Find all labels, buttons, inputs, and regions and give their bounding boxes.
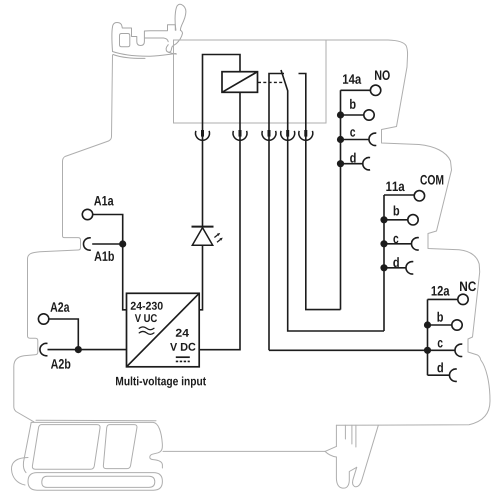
label COM (420, 175, 443, 185)
wire contact row c long (269, 349, 428, 351)
label A2a (50, 302, 69, 312)
foot top and right hook (31, 422, 162, 468)
AC tildes (139, 327, 154, 335)
row 12b (428, 324, 452, 326)
label Multi-voltage input (116, 377, 206, 388)
housing outline: module silhouette left side (14, 55, 113, 422)
label V UC (135, 314, 157, 322)
terminal group 11 COM (384, 191, 425, 331)
latch thumb lever (175, 4, 186, 30)
label c (393, 236, 398, 244)
LED arrows (214, 233, 222, 242)
contact blade (281, 70, 384, 331)
label c (438, 340, 443, 348)
junction A1 (119, 240, 126, 247)
label A2b (51, 359, 71, 369)
label c (350, 129, 355, 137)
row 11c (384, 243, 411, 245)
bus 14 (340, 90, 342, 309)
row 14d (341, 163, 363, 165)
row 12c (428, 349, 455, 351)
dashed actuator link (258, 81, 284, 83)
housing outline: module silhouette top and right side (14, 40, 490, 425)
label d (393, 257, 399, 267)
foot left edge (23, 422, 31, 472)
relay component box (gray) (174, 40, 327, 123)
wire coil A2 bottom to input box (199, 92, 240, 349)
bus 11 (383, 195, 385, 331)
foot bottom bar inner (42, 476, 155, 487)
row 14b (341, 114, 364, 116)
wire contact COM pivot (269, 74, 284, 351)
din rail edge line (163, 446, 336, 457)
LED D1 (192, 135, 223, 310)
bus 12 (427, 299, 429, 375)
label b (394, 206, 400, 216)
label A1a (94, 196, 114, 206)
DC symbol (176, 357, 190, 361)
terminal A2a (38, 314, 78, 350)
label 14a (343, 74, 361, 84)
row 14c (341, 139, 369, 141)
label 24-230 (131, 302, 163, 310)
label NC (460, 281, 476, 291)
label 24 (176, 329, 189, 337)
row 11a (384, 194, 414, 196)
label b (438, 312, 444, 322)
terminal group 14 NO (341, 85, 381, 310)
label d (437, 362, 443, 372)
label b (350, 99, 356, 109)
label 11a (386, 182, 404, 192)
foot panel 1 (32, 425, 100, 470)
latch bottom curves (113, 52, 177, 57)
foot bottom bar outer (28, 473, 162, 491)
housing outline: release latch (112, 4, 186, 58)
terminal A2b (40, 343, 127, 355)
relay coil K1 (222, 72, 258, 93)
row 11d (384, 267, 406, 269)
din rail left end cap (11, 458, 28, 486)
base parting line (36, 419, 156, 422)
label 12a (432, 286, 450, 296)
latch inner hole (120, 34, 130, 47)
housing outline: DIN-rail foot left (11, 420, 162, 490)
plug-in sockets (5 pins) (196, 130, 313, 140)
terminal A1b (83, 238, 122, 250)
row 11b (384, 219, 408, 221)
row 12d (428, 374, 450, 376)
terminal group 12 NC (428, 294, 469, 381)
housing outline: DIN-rail claw right (336, 425, 378, 488)
row 12a (428, 298, 458, 300)
wire coil A1 top (203, 55, 241, 136)
terminal A1a (82, 209, 126, 309)
label d (350, 153, 356, 163)
label NO (375, 70, 390, 80)
junction A2 (75, 346, 82, 353)
contact NO tick and wire (299, 74, 341, 310)
label V DC (170, 343, 195, 351)
label A1b (94, 251, 114, 261)
foot panel 2 (103, 425, 137, 469)
black schematic (199, 55, 427, 351)
row 14a (341, 89, 371, 91)
multi-voltage input box U1 (127, 293, 200, 367)
